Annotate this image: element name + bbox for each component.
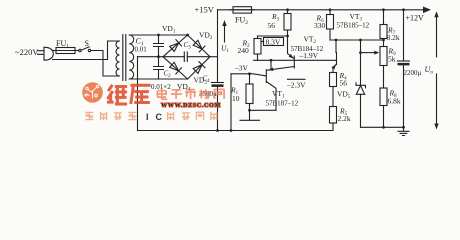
node R3 rail [286,8,289,11]
diode VD4 symbol [170,62,179,71]
wire left drop to bottom rail [137,57,139,131]
arrow U1 [224,24,226,42]
svg-text:+12V: +12V [406,14,425,23]
wire VT3 collector rail [330,39,384,41]
diode VD3 [193,65,202,74]
watermark weiku char wei [107,85,127,104]
transformer T primary winding [112,41,120,76]
svg-text:I: I [146,112,149,122]
bridge middle wire with C3 [163,56,210,58]
watermark slogan chars [85,112,93,120]
main vertical +15V column [217,10,219,131]
node bridge top vertex [186,34,189,37]
resistor R3 [287,10,289,14]
wire secondary top to bridge top vertex [129,34,187,36]
node VT3 collector [335,39,338,42]
arrow +12V rail [423,7,431,14]
svg-text:6.8k: 6.8k [388,97,401,106]
svg-text:240: 240 [238,46,250,55]
wire FU1 to S [75,50,79,52]
node -3V column bottom [230,129,233,132]
resistor R2 [257,36,259,39]
svg-text:2200μ: 2200μ [404,69,422,77]
bridge edge T-R [188,35,210,57]
svg-text:–1.9V: –1.9V [299,51,319,60]
wire -3V drop to bottom rail [230,74,232,131]
watermark char dian [157,89,167,100]
svg-text:8.3V: 8.3V [266,37,281,46]
node R1 bottom [248,109,251,112]
svg-text:2.2k: 2.2k [338,114,351,123]
resistor R4 [330,73,337,87]
wire VT1 emitter riser [270,60,272,69]
node 2200u rail [402,8,405,11]
stub terminal below R1 [240,110,260,120]
plug P1 [38,47,54,60]
svg-text:330: 330 [314,21,326,30]
watermark char zi [171,90,182,99]
wire secondary bottom to bridge bottom vertex [129,78,187,80]
ground [398,127,409,135]
capacitor C4 [212,82,224,84]
node R6 rail [329,8,332,11]
node VT1 emitter riser top [270,59,273,62]
node C1 top [157,34,160,37]
node ground [402,126,405,129]
transformer T secondary winding [129,35,133,79]
transistor VT2 [288,36,295,59]
transformer core [123,35,126,81]
resistor R5 [330,107,337,124]
svg-text:–3V: –3V [234,64,249,73]
wire VT2 base [254,59,337,61]
node C4 bottom [216,129,219,132]
svg-text:S: S [85,39,89,48]
watermark weiku char ku [130,85,150,104]
svg-text:56: 56 [268,21,276,30]
svg-text:0.01: 0.01 [135,46,148,54]
bridge edge L-T [163,35,188,57]
top rail [218,9,424,11]
label -2.3V [288,78,306,80]
watermark logo [82,82,224,122]
wire plug to FU1 [52,50,56,52]
bridge edge L-B [163,57,188,79]
diode VD2 [193,40,202,49]
wire VT1 collector to R1 [250,109,277,111]
capacitor C3 [184,52,187,62]
node R8 bottom [382,126,385,129]
node R7 R9 junction [382,39,385,42]
node R1 top [248,72,251,75]
node zener column top [359,39,362,42]
transistor VT1 [265,70,267,83]
watermark char chang [199,89,210,99]
bottom rail left [138,130,334,132]
capacitor 2200u [403,10,405,61]
capacitor C1 [154,35,164,57]
wiper R9 [359,51,362,54]
zener diode VD5 [360,40,362,85]
bridge edge B-R [188,57,210,79]
wire bridge minus to left drop [138,56,164,58]
svg-text:5k: 5k [388,55,396,64]
svg-text:+15V: +15V [195,5,215,15]
node R7 rail [382,8,385,11]
svg-text:56: 56 [340,79,348,88]
wire bridge + to main vertical [210,56,218,58]
box 8.3V [261,41,264,43]
watermark char wang [215,89,225,99]
potentiometer R9 [380,47,387,66]
capacitor C2 [154,57,164,79]
resistor R1 [249,74,251,84]
svg-text:57B187–12: 57B187–12 [266,100,299,108]
svg-text:8.2k: 8.2k [387,33,400,42]
wire R2 top [258,35,288,37]
diode VD1 [170,43,179,52]
wire S to primary bottom [91,51,112,77]
resistor R6 [329,10,331,15]
svg-text:10: 10 [232,94,240,103]
resistor R7 [383,10,385,25]
fuse FU2 [233,7,252,13]
arrow Uo [436,17,438,57]
node C1 C2 junction [157,55,160,58]
svg-text:WWW.DZSC.COM: WWW.DZSC.COM [161,102,221,109]
resistor R8 [380,88,387,106]
node R3 bottom [286,35,289,38]
fuse FU1 [56,48,75,54]
svg-text:~220V: ~220V [15,47,39,57]
svg-text:57B185–12: 57B185–12 [337,22,370,30]
svg-text:C: C [156,112,163,122]
watermark char shi [185,89,196,99]
switch S [79,49,81,51]
svg-text:–2.3V: –2.3V [286,81,306,90]
wire plug bottom to primary top [53,41,113,60]
bottom rail right [361,126,404,128]
